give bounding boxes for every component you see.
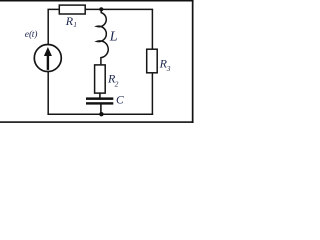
svg-text:3: 3 <box>166 64 171 73</box>
svg-text:2: 2 <box>115 79 119 88</box>
border frame right <box>192 0 194 123</box>
source arrow head <box>44 47 52 56</box>
capacitor C top plate <box>86 97 113 100</box>
capacitor C bottom plate <box>86 102 113 104</box>
border frame top <box>0 0 194 2</box>
wire: R2 to capacitor <box>99 93 101 98</box>
node A (top junction dot) <box>99 7 103 11</box>
wire: bottom horizontal <box>47 113 153 115</box>
resistor R2 <box>95 65 106 93</box>
resistor R1 <box>59 5 85 14</box>
svg-text:): ) <box>33 29 37 40</box>
source arrow shaft <box>47 54 49 70</box>
source e(t) circle <box>34 45 61 72</box>
svg-text:C: C <box>116 95 124 107</box>
wire: left branch top (source to top wire) <box>47 9 49 44</box>
wire: top horizontal <box>47 8 153 10</box>
border frame bottom <box>0 121 194 123</box>
svg-text:1: 1 <box>73 20 77 29</box>
resistor R3 <box>147 49 158 73</box>
svg-text:L: L <box>109 30 118 45</box>
inductor L <box>97 10 108 65</box>
wire: right branch upper (top wire down to R3) <box>151 9 153 49</box>
wire: left branch bottom (source to bottom wire) <box>47 72 49 115</box>
wire: right branch lower (R3 to bottom wire) <box>151 73 153 115</box>
node B (bottom junction dot) <box>99 112 103 116</box>
wire: capacitor to bottom wire <box>100 105 102 115</box>
